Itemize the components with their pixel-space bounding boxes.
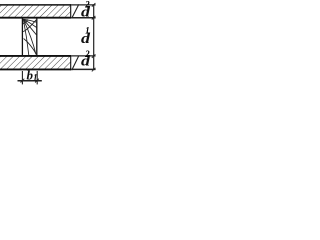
- svg-text:2: 2: [84, 49, 90, 59]
- oblique slash top d2: [72, 4, 79, 18]
- bottom plate right edge: [70, 55, 72, 70]
- svg-text:2: 2: [84, 0, 90, 10]
- b1 ticks: [21, 79, 25, 83]
- vertical dimension line: [93, 4, 95, 70]
- bottom plate hatching: [0, 56, 71, 70]
- dimension ticks: [92, 3, 96, 71]
- top plate top edge: [0, 4, 71, 6]
- top plate bottom edge: [0, 17, 71, 19]
- right extension lines: [71, 4, 95, 6]
- bottom plate top edge: [0, 55, 71, 57]
- web left edge: [21, 18, 23, 55]
- top plate right edge: [70, 4, 72, 18]
- oblique slash bottom d2: [72, 56, 79, 70]
- weld fan curves: [23, 19, 36, 55]
- web right edge: [36, 18, 38, 55]
- b1 dimension line: [18, 80, 42, 82]
- svg-text:1: 1: [85, 26, 90, 36]
- top plate hatching: [0, 5, 71, 18]
- b1 extension lines: [21, 71, 23, 84]
- bottom plate bottom edge: [0, 68, 71, 70]
